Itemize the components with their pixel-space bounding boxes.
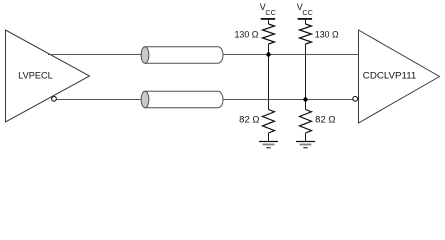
transmission line TL2 (coax cylinder) [141,91,223,107]
wire top from TL1 to receiver [223,54,359,56]
junction node rail2 / bottom line [303,97,307,101]
svg-text:130 Ω: 130 Ω [235,29,259,39]
power VCC symbol 1 [260,2,276,19]
transmission line TL1 (coax cylinder) [141,47,223,63]
inversion bubble on U1 complementary output [52,96,57,101]
wire top output from U1 to T-line 1 [48,54,143,56]
svg-text:82 Ω: 82 Ω [315,114,335,124]
svg-text:CC: CC [302,8,312,17]
svg-text:CC: CC [265,8,275,17]
junction node rail1 / top line [266,52,270,56]
power VCC symbol 2 [297,2,313,19]
wire bottom from TL2 to receiver bubble [223,99,353,101]
wire bottom output from U1 bubble to T-line 2 [56,99,143,101]
receiver U2 CDCLVP111 buffer [359,30,440,123]
resistor R4 82 ohm [300,110,312,134]
driver U1 LVPECL buffer [6,30,90,122]
ground symbol 2 [296,142,315,148]
resistor R2 130 ohm [300,24,312,44]
resistor R1 130 ohm [263,24,275,44]
wire rail 1 (R3 to ground) [268,133,270,141]
svg-text:82 Ω: 82 Ω [239,114,259,124]
wire rail 2 (R2 down across both lines to R4) [305,44,307,110]
svg-text:130 Ω: 130 Ω [315,29,339,39]
svg-text:LVPECL: LVPECL [18,70,53,80]
wire rail 1 (R1 down across both lines to R3) [268,44,270,110]
inversion bubble on U2 complementary input [353,96,358,101]
svg-text:CDCLVP111: CDCLVP111 [363,70,417,80]
ground symbol 1 [259,142,278,148]
wire rail 2 (VCC to R2) [305,19,307,24]
wire rail 2 (R4 to ground) [305,133,307,141]
wire rail 1 (VCC to R1) [268,19,270,24]
resistor R3 82 ohm [263,110,275,134]
